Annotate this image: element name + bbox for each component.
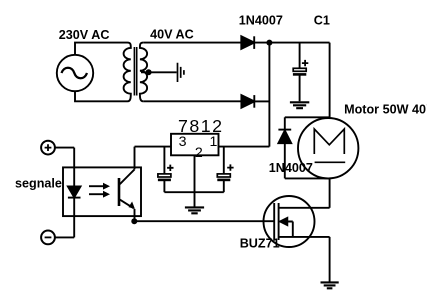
diode D2 1N4007 bbox=[241, 95, 254, 108]
junction dot rectifier bbox=[266, 40, 272, 46]
wire gate bbox=[134, 220, 274, 222]
svg-text:230V AC: 230V AC bbox=[59, 28, 110, 42]
wire flyback top bbox=[285, 116, 330, 118]
wire pin1 bbox=[219, 146, 270, 148]
wire secondary top rail bbox=[143, 42, 241, 44]
wire pin3 bbox=[135, 146, 172, 148]
svg-text:segnale: segnale bbox=[15, 176, 62, 190]
7812 regulator U1 bbox=[171, 134, 219, 161]
wire motor to drain bbox=[329, 178, 331, 207]
diode D3 1N4007 flyback bbox=[278, 117, 291, 178]
wire motor top vertical bbox=[329, 43, 331, 118]
junction dot center tap bbox=[146, 69, 152, 75]
plus sign C1 bbox=[302, 60, 308, 66]
wire plus to LED bbox=[55, 147, 74, 149]
MOSFET body arrow bbox=[280, 218, 293, 237]
wire center tap bbox=[141, 71, 177, 73]
svg-text:1: 1 bbox=[210, 134, 218, 150]
phototransistor bbox=[119, 147, 135, 222]
svg-text:C1: C1 bbox=[314, 13, 330, 27]
terminal plus bbox=[41, 141, 55, 155]
svg-text:2: 2 bbox=[195, 145, 203, 161]
svg-text:Motor 50W 40V: Motor 50W 40V bbox=[344, 103, 435, 117]
transformer T1 primary bbox=[124, 43, 131, 102]
AC source V1 bbox=[57, 55, 93, 91]
wire regulator ground stem bbox=[194, 155, 196, 207]
svg-text:BUZ71: BUZ71 bbox=[240, 236, 280, 250]
svg-text:7812: 7812 bbox=[178, 116, 224, 136]
wire capacitor bottom rail bbox=[164, 191, 223, 193]
wire minus to LED bbox=[55, 236, 74, 238]
svg-text:1N4007: 1N4007 bbox=[269, 161, 313, 175]
capacitor C1 bbox=[293, 43, 306, 102]
wire secondary bottom rail bbox=[143, 100, 241, 102]
svg-text:40V AC: 40V AC bbox=[150, 27, 194, 41]
MOSFET Q1 bbox=[264, 196, 330, 247]
svg-text:1N4007: 1N4007 bbox=[239, 13, 283, 27]
LED D4 bbox=[68, 148, 81, 238]
optocoupler U2 box bbox=[63, 167, 141, 216]
wire flyback bottom / motor bottom bbox=[285, 177, 330, 179]
transformer T1 core bbox=[134, 47, 136, 96]
wire rectifier to regulator input bbox=[268, 43, 270, 147]
ground center tap (rotated) bbox=[178, 63, 184, 82]
plus sign C3 bbox=[227, 164, 233, 170]
svg-text:3: 3 bbox=[179, 134, 187, 150]
terminal minus bbox=[41, 231, 55, 245]
wire AC bottom bbox=[75, 91, 128, 101]
transformer T1 secondary bbox=[140, 43, 147, 102]
ground C1 bbox=[290, 102, 309, 108]
junction dot gate bbox=[131, 218, 137, 224]
light arrows bbox=[89, 183, 110, 198]
wire D2 cathode bbox=[254, 100, 269, 102]
wire AC top bbox=[75, 43, 128, 55]
wire source to ground bbox=[329, 237, 331, 282]
motor M1 bbox=[298, 118, 358, 178]
capacitor C2 left bbox=[158, 147, 171, 193]
ground MOSFET bbox=[321, 282, 339, 288]
diode D1 1N4007 bbox=[241, 36, 254, 49]
plus sign C2 bbox=[167, 165, 173, 171]
capacitor C3 right bbox=[217, 147, 230, 193]
ground 7812 bbox=[185, 207, 204, 213]
wire D1 cathode rail bbox=[254, 42, 329, 44]
mask for clipped Motor label bbox=[426, 100, 440, 116]
